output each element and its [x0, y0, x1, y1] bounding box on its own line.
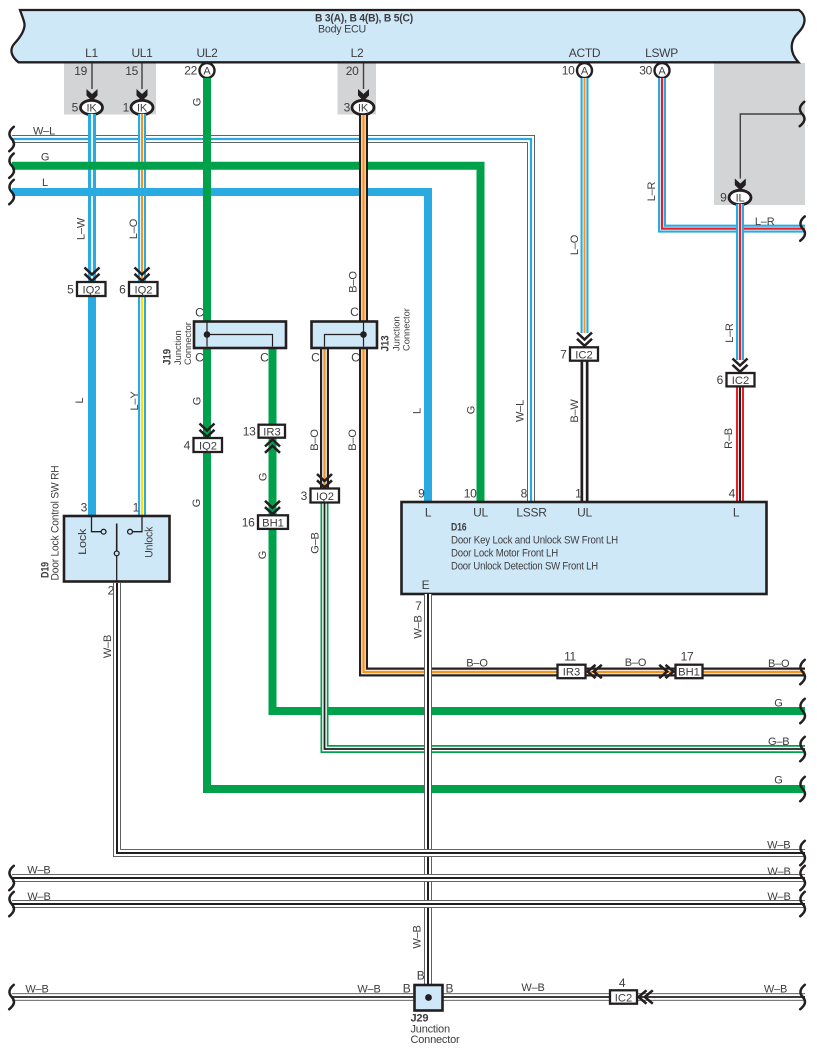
chevron arrows into IQ2 5 [85, 268, 100, 281]
connector BH1 pin 17 box [676, 665, 703, 679]
svg-text:A: A [581, 66, 589, 78]
svg-text:G: G [192, 397, 204, 405]
svg-text:B–O: B–O [768, 658, 790, 670]
svg-text:G: G [192, 98, 204, 106]
svg-text:IQ2: IQ2 [199, 441, 217, 453]
D19 lock contact circle [101, 529, 106, 534]
svg-text:6: 6 [717, 373, 724, 387]
break symbol W-B row2 left [9, 866, 14, 890]
svg-text:B–O: B–O [309, 429, 321, 451]
wire L-R from A 30 (LSWP) down then right to edge [662, 78, 805, 229]
wire L-Y from IQ2 6 down to D19 pin 1 [138, 295, 146, 517]
svg-text:W–L: W–L [33, 126, 55, 138]
break symbol bus right [800, 985, 805, 1009]
svg-text:9: 9 [418, 487, 425, 501]
svg-text:Door Lock Motor Front LH: Door Lock Motor Front LH [451, 548, 558, 560]
svg-text:W–B: W–B [413, 615, 425, 638]
break symbol W-L left [9, 127, 14, 151]
svg-text:B: B [403, 982, 411, 996]
svg-text:UL1: UL1 [131, 46, 153, 60]
svg-text:4: 4 [619, 976, 626, 990]
svg-text:13: 13 [243, 425, 256, 439]
svg-text:LSWP: LSWP [645, 46, 678, 60]
svg-text:Connector: Connector [183, 322, 193, 365]
svg-text:L: L [42, 177, 48, 189]
wire G vertical from J19 down then right to edge [207, 347, 805, 789]
svg-text:W–B: W–B [102, 635, 114, 658]
break symbol G2 right [800, 777, 805, 801]
break symbol W-B row3 right [800, 892, 805, 916]
break symbol W-B row1 right [800, 841, 805, 865]
wire B-O from IK 3 down to J13 [359, 115, 368, 323]
D19 switch lever [116, 524, 118, 551]
connector IQ2 pin 3 box [311, 489, 340, 504]
svg-text:B: B [446, 982, 454, 996]
chevron arrows into IR3 11 pointing left [588, 665, 602, 678]
svg-text:L–W: L–W [75, 217, 87, 240]
wire L-O from A 10 (ACTD) down to IC2 7 [581, 78, 589, 333]
gray highlight panel behind ECU pin 20 [338, 63, 377, 115]
svg-text:IC2: IC2 [575, 349, 592, 361]
break symbol G-B right [800, 737, 805, 761]
svg-text:4: 4 [184, 439, 191, 453]
svg-text:ACTD: ACTD [569, 46, 601, 60]
svg-text:G: G [774, 775, 782, 787]
svg-text:IL: IL [736, 193, 745, 205]
wire L-R from IL 9 down to IC2 6 [736, 204, 744, 360]
wire G-B from IQ2 3 down then right to edge [325, 503, 806, 749]
connector IL pin 9 oval [729, 190, 751, 204]
wire W-B horizontal row 3 [12, 900, 805, 908]
junction connector J19 box [194, 322, 286, 349]
svg-text:20: 20 [346, 64, 359, 78]
svg-text:30: 30 [639, 64, 652, 78]
wire B-O from J13 left pin down to IQ2 3 [320, 347, 329, 489]
svg-text:Connector: Connector [401, 308, 411, 351]
connector A pin 30 circle [655, 63, 670, 78]
break symbol W-B row2 right [800, 866, 805, 890]
D19 unlock contact wiring [133, 517, 143, 532]
wire W-B bottom bus [12, 993, 805, 1000]
svg-text:L: L [425, 506, 432, 520]
svg-text:Body ECU: Body ECU [318, 24, 366, 36]
svg-text:L2: L2 [351, 46, 364, 60]
connector IR3 pin 13 box [259, 425, 286, 439]
wire L from IQ2 5 down to D19 pin 3 [88, 295, 96, 517]
svg-text:IK: IK [358, 103, 369, 115]
svg-text:UL: UL [577, 506, 592, 520]
pin 15 arrowhead [137, 89, 148, 101]
svg-text:19: 19 [74, 64, 87, 78]
svg-text:C: C [195, 306, 204, 320]
svg-text:IK: IK [137, 103, 148, 115]
wire L-O vertical from IK 1 to IQ2 6 [138, 114, 146, 283]
chevron arrows into IC2 6 [733, 359, 748, 372]
svg-text:3: 3 [301, 489, 308, 503]
svg-text:R–B: R–B [723, 428, 735, 449]
svg-text:Door Unlock Detection SW Front: Door Unlock Detection SW Front LH [451, 561, 598, 573]
connector IC2 pin 4 box (bottom) [610, 990, 637, 1004]
wire B-W from IC2 7 down to D16 pin 1 [581, 360, 589, 503]
break symbol L left [9, 180, 14, 204]
D19 common contact circle [114, 551, 119, 556]
svg-text:5: 5 [72, 101, 79, 115]
junction connector J13 box [312, 322, 378, 349]
svg-text:G: G [465, 406, 477, 414]
D16 Door Lock Motor box [402, 502, 767, 594]
connector IR3 pin 11 box (horizontal run) [558, 665, 586, 679]
svg-text:W–L: W–L [514, 400, 526, 422]
svg-text:L–R: L–R [646, 181, 658, 201]
wire G horizontal from left edge turning down to D16 pin 10 [12, 166, 481, 503]
svg-text:BH1: BH1 [262, 517, 284, 529]
svg-text:15: 15 [125, 64, 138, 78]
svg-text:IC2: IC2 [732, 375, 749, 387]
break symbol G left [9, 154, 14, 178]
svg-text:B: B [417, 968, 425, 982]
wire W-B from D19 pin 2 down then right to edge [117, 583, 805, 853]
svg-text:Lock: Lock [77, 528, 89, 555]
chevrons into IC2 4 pointing left [639, 990, 653, 1003]
svg-text:G: G [258, 473, 270, 481]
chevron arrows into IQ2 3 [317, 474, 332, 487]
svg-text:C: C [351, 351, 360, 365]
svg-text:B–O: B–O [625, 657, 647, 669]
svg-text:7: 7 [415, 599, 422, 613]
connector IC2 pin 7 box [570, 347, 598, 361]
svg-text:L1: L1 [85, 46, 98, 60]
svg-text:G: G [257, 551, 269, 559]
svg-text:4: 4 [729, 487, 736, 501]
gray highlight panel right (IL area) [714, 63, 805, 205]
wire G from J19 second pin down through IR3/BH1 then right to edge [273, 347, 806, 711]
svg-text:W–B: W–B [27, 865, 50, 877]
chevron arrows into IC2 7 [577, 333, 592, 346]
svg-text:L–R: L–R [755, 216, 775, 228]
pin 19 stub wire [91, 64, 93, 90]
svg-text:IQ2: IQ2 [134, 285, 152, 297]
svg-text:W–B: W–B [357, 984, 380, 996]
svg-text:10: 10 [464, 487, 477, 501]
svg-text:IR3: IR3 [263, 427, 280, 439]
svg-text:11: 11 [564, 650, 576, 664]
svg-text:J19: J19 [162, 349, 174, 365]
connector A pin 10 circle [577, 63, 592, 78]
connector BH1 pin 16 box [258, 515, 288, 529]
svg-text:W–B: W–B [27, 891, 50, 903]
connector IK pin 1 oval [131, 100, 153, 114]
pin 19 arrowhead [87, 89, 98, 101]
svg-text:IR3: IR3 [563, 667, 580, 679]
break symbol bus left [9, 985, 14, 1009]
svg-text:C: C [350, 305, 359, 319]
break symbol W-B row3 left [9, 892, 14, 916]
chevron arrows into BH1 16 [265, 501, 280, 514]
svg-text:D16: D16 [451, 522, 467, 534]
svg-text:G–B: G–B [309, 532, 321, 553]
D19 Door Lock Control SW RH box [64, 516, 170, 582]
Body ECU box B3(A),B4(B),B5(C) [11, 10, 804, 62]
svg-text:C: C [311, 351, 320, 365]
connector IQ2 pin 4 box [194, 438, 223, 453]
svg-text:C: C [195, 351, 204, 365]
D19 unlock contact circle [128, 529, 133, 534]
svg-text:9: 9 [720, 191, 727, 205]
svg-text:IC2: IC2 [615, 993, 632, 1005]
chevron arrows into IR3 13 pointing up [265, 440, 280, 453]
svg-text:J13: J13 [379, 335, 391, 351]
pin 15 stub wire [141, 64, 143, 90]
pin 20 arrowhead [358, 89, 369, 101]
gray highlight panel behind ECU pins 19/15 [64, 63, 156, 115]
pin 20 stub wire [363, 64, 365, 90]
connector IC2 pin 6 box [727, 373, 755, 387]
wire B from right edge to IL [740, 114, 801, 179]
svg-text:W–B: W–B [25, 984, 48, 996]
svg-text:E: E [422, 578, 430, 592]
wire G vertical from A 22 to J19 [203, 78, 211, 323]
svg-text:B–O: B–O [347, 429, 359, 451]
IL arrowhead [735, 179, 746, 191]
connector IK pin 3 oval [352, 100, 374, 114]
svg-text:1: 1 [575, 487, 582, 501]
svg-text:IQ2: IQ2 [82, 285, 100, 297]
svg-text:Connector: Connector [411, 1034, 460, 1046]
svg-text:16: 16 [242, 515, 255, 529]
svg-text:W–B: W–B [767, 866, 790, 878]
svg-text:UL2: UL2 [196, 46, 218, 60]
svg-text:3: 3 [81, 501, 88, 515]
svg-text:W–B: W–B [767, 839, 790, 851]
svg-text:6: 6 [119, 283, 126, 297]
svg-text:L–Y: L–Y [129, 391, 141, 411]
svg-text:7: 7 [560, 347, 567, 361]
break symbol G right [800, 699, 805, 723]
D19 lock contact wiring [92, 517, 102, 532]
svg-text:LSSR: LSSR [516, 506, 547, 520]
svg-text:B–O: B–O [466, 658, 488, 670]
svg-text:B–W: B–W [569, 399, 581, 423]
chevron arrows into IQ2 6 [135, 268, 150, 281]
svg-text:Junction: Junction [173, 330, 183, 365]
svg-text:Junction: Junction [392, 316, 402, 351]
svg-text:1: 1 [133, 501, 140, 515]
break symbol L-R right [800, 216, 805, 240]
svg-text:L: L [733, 506, 740, 520]
D19 common wire to pin 2 [116, 556, 118, 581]
svg-text:17: 17 [681, 650, 694, 664]
wire B-O from J13 down then right through IR3/BH1 to edge [364, 347, 806, 672]
svg-text:A: A [203, 66, 211, 78]
connector IK pin 5 oval [81, 100, 103, 114]
svg-text:1: 1 [123, 101, 130, 115]
svg-text:3: 3 [344, 101, 351, 115]
svg-text:L–R: L–R [724, 323, 736, 343]
chevron arrows into IQ2 4 [200, 424, 215, 437]
svg-text:G: G [41, 152, 49, 164]
wire L-W vertical from IK 5 to IQ2 5 [88, 114, 96, 283]
svg-text:G: G [191, 499, 203, 507]
svg-text:5: 5 [67, 283, 74, 297]
svg-text:G: G [774, 698, 782, 710]
svg-text:B–O: B–O [348, 271, 360, 293]
wire R-B from IC2 6 down to D16 pin 4 [736, 386, 744, 503]
svg-text:IQ2: IQ2 [316, 491, 334, 503]
svg-text:W–B: W–B [764, 984, 787, 996]
connector IQ2 pin 5 box [77, 282, 106, 297]
wire W-B from D16 pin E down to J29 [424, 594, 432, 986]
break symbol at right end of B wire [800, 102, 805, 126]
svg-text:L–O: L–O [569, 234, 581, 255]
svg-text:W–B: W–B [521, 982, 544, 994]
svg-text:22: 22 [184, 64, 197, 78]
svg-text:W–B: W–B [412, 925, 424, 948]
svg-text:W–B: W–B [767, 891, 790, 903]
wire L horizontal from left edge turning down to D16 pin 9 [12, 192, 428, 503]
svg-text:L–O: L–O [128, 218, 140, 239]
wire W-L horizontal from left edge turning down to D16 pin 8 [12, 139, 531, 502]
svg-text:BH1: BH1 [678, 667, 700, 679]
chevron arrows into BH1 17 pointing right [659, 665, 673, 678]
svg-text:IK: IK [87, 103, 98, 115]
svg-text:G–B: G–B [768, 736, 789, 748]
svg-text:8: 8 [521, 487, 528, 501]
connector IQ2 pin 6 box [129, 282, 158, 297]
svg-text:C: C [260, 351, 269, 365]
svg-text:A: A [658, 66, 666, 78]
svg-text:L: L [74, 397, 86, 403]
svg-text:UL: UL [473, 506, 488, 520]
svg-text:Door Lock Control SW RH: Door Lock Control SW RH [50, 465, 62, 580]
svg-text:L: L [411, 408, 423, 414]
wire W-B horizontal row 2 [12, 874, 805, 882]
svg-text:Door Key Lock and Unlock SW Fr: Door Key Lock and Unlock SW Front LH [451, 535, 618, 547]
junction connector J29 box [415, 985, 443, 1011]
break symbol B-O right [800, 660, 805, 684]
connector A pin 22 circle [200, 63, 215, 78]
svg-text:10: 10 [562, 64, 575, 78]
svg-text:Unlock: Unlock [144, 526, 156, 558]
